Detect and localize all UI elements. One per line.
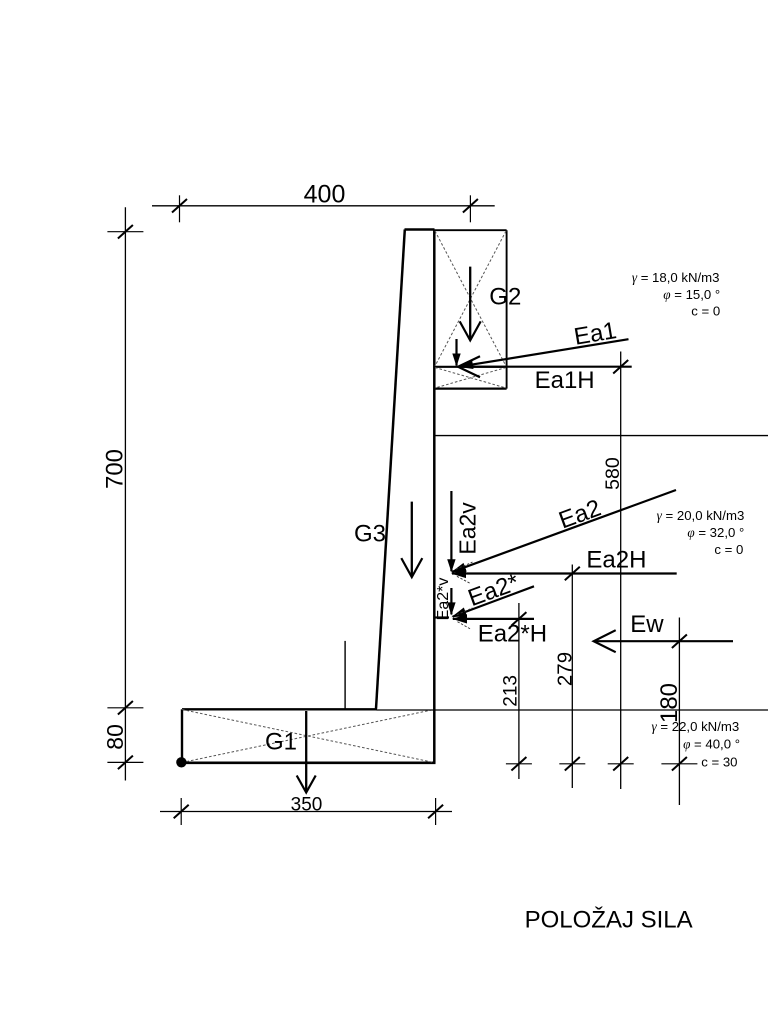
svg-text:G1: G1 (265, 729, 297, 756)
svg-text:80: 80 (102, 724, 128, 750)
svg-text:Ea2v: Ea2v (455, 502, 481, 555)
G2 block diagonal cross (435, 231, 506, 388)
svg-text:G3: G3 (354, 521, 386, 548)
force G3 (weight of stem) arrow (401, 502, 422, 577)
svg-text:POLOŽAJ SILA: POLOŽAJ SILA (525, 907, 693, 934)
force G1 (weight of footing) arrow (297, 711, 316, 793)
force Ea1v (vertical component) arrow (452, 339, 460, 367)
force Ea2*v (vertical component) arrow (447, 588, 455, 615)
dimension 80 (left) (102, 724, 143, 769)
foundation soil parameters (652, 719, 740, 770)
svg-text:Ew: Ew (630, 611, 664, 638)
soil layer 1 parameters (632, 270, 720, 318)
ground line in front of wall (right of footing) (377, 709, 768, 711)
dimension 180 (vertical, at Ew) (656, 618, 697, 806)
short vertical reference line near stem base (344, 641, 346, 709)
svg-text:Ea2*v: Ea2*v (435, 578, 452, 621)
pivot point (toe) (176, 757, 186, 767)
dimension 350 (bottom) (160, 794, 452, 825)
force Ew (water/earthquake) arrow (594, 630, 733, 652)
svg-text:180: 180 (656, 683, 683, 723)
svg-text:c = 0: c = 0 (714, 542, 743, 557)
svg-text:c = 30: c = 30 (701, 755, 737, 770)
svg-text:φ = 40,0 °: φ = 40,0 ° (683, 736, 740, 751)
dimension 580 (vertical, at Ea1H) (602, 352, 634, 790)
soil layer 2 parameters (657, 508, 745, 557)
dimension 279 (vertical, at Ea2H) (554, 565, 586, 789)
dimension 700 (left) (101, 207, 143, 780)
svg-text:350: 350 (291, 794, 323, 815)
svg-text:G2: G2 (489, 283, 521, 310)
soil layer boundary line (right) (435, 435, 768, 437)
dimension 400 (top) (152, 181, 495, 223)
dimension 213 (vertical, at Ea2*H) (501, 603, 532, 779)
force Ea2H (horizontal component) arrow (451, 562, 677, 584)
svg-text:γ = 20,0 kN/m3: γ = 20,0 kN/m3 (657, 508, 745, 523)
svg-text:φ = 32,0 °: φ = 32,0 ° (687, 525, 744, 540)
svg-text:700: 700 (101, 449, 128, 489)
svg-text:Ea2*H: Ea2*H (478, 621, 547, 648)
svg-text:279: 279 (554, 652, 577, 686)
force G2 (weight of soil block) arrow (460, 267, 481, 341)
svg-text:c = 0: c = 0 (691, 303, 720, 318)
concrete retaining wall outline (181, 230, 436, 764)
svg-text:213: 213 (501, 675, 522, 707)
svg-text:580: 580 (602, 457, 624, 490)
svg-text:γ = 18,0 kN/m3: γ = 18,0 kN/m3 (632, 270, 720, 285)
svg-text:Ea1H: Ea1H (535, 367, 595, 394)
footing diagonal cross (182, 710, 434, 763)
svg-text:γ = 22,0 kN/m3: γ = 22,0 kN/m3 (652, 719, 740, 734)
force Ea1 (resultant) arrow (458, 339, 629, 369)
force Ea2v (vertical component) arrow (447, 491, 455, 572)
force Ea1H (horizontal component) arrow (458, 356, 632, 377)
svg-text:Ea2H: Ea2H (586, 546, 646, 573)
force Ea2* (resultant below) arrow (451, 586, 534, 617)
svg-text:φ = 15,0 °: φ = 15,0 ° (663, 287, 720, 302)
svg-text:400: 400 (304, 181, 346, 209)
force Ea2 (resultant) arrow (451, 490, 676, 572)
force Ea2*H (horizontal component) arrow (435, 608, 535, 629)
soil block over heel (G2 block) (435, 230, 507, 388)
